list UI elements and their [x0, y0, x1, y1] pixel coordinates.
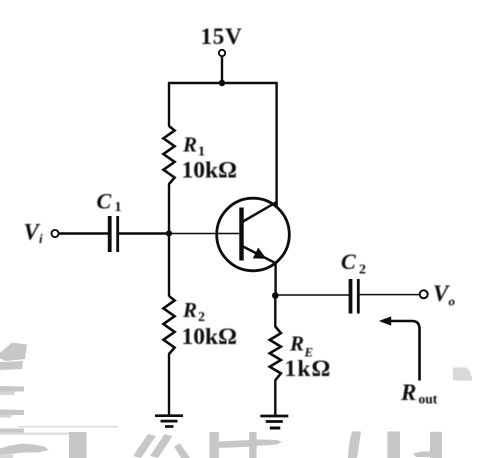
svg-text:R: R — [289, 332, 304, 356]
svg-text:15V: 15V — [201, 24, 243, 49]
svg-text:V: V — [433, 281, 450, 306]
svg-text:o: o — [449, 294, 456, 309]
svg-text:1: 1 — [115, 200, 122, 215]
svg-text:R: R — [182, 298, 197, 322]
svg-text:2: 2 — [359, 263, 366, 278]
svg-text:1kΩ: 1kΩ — [285, 356, 332, 382]
svg-text:10kΩ: 10kΩ — [182, 324, 237, 350]
svg-text:R: R — [400, 380, 416, 405]
svg-text:C: C — [97, 189, 112, 214]
svg-text:R: R — [182, 133, 197, 157]
svg-text:2: 2 — [198, 310, 205, 325]
svg-text:C: C — [341, 249, 356, 274]
svg-text:i: i — [39, 231, 43, 246]
svg-text:out: out — [419, 392, 438, 407]
svg-text:V: V — [24, 220, 41, 245]
svg-text:10kΩ: 10kΩ — [182, 158, 237, 184]
